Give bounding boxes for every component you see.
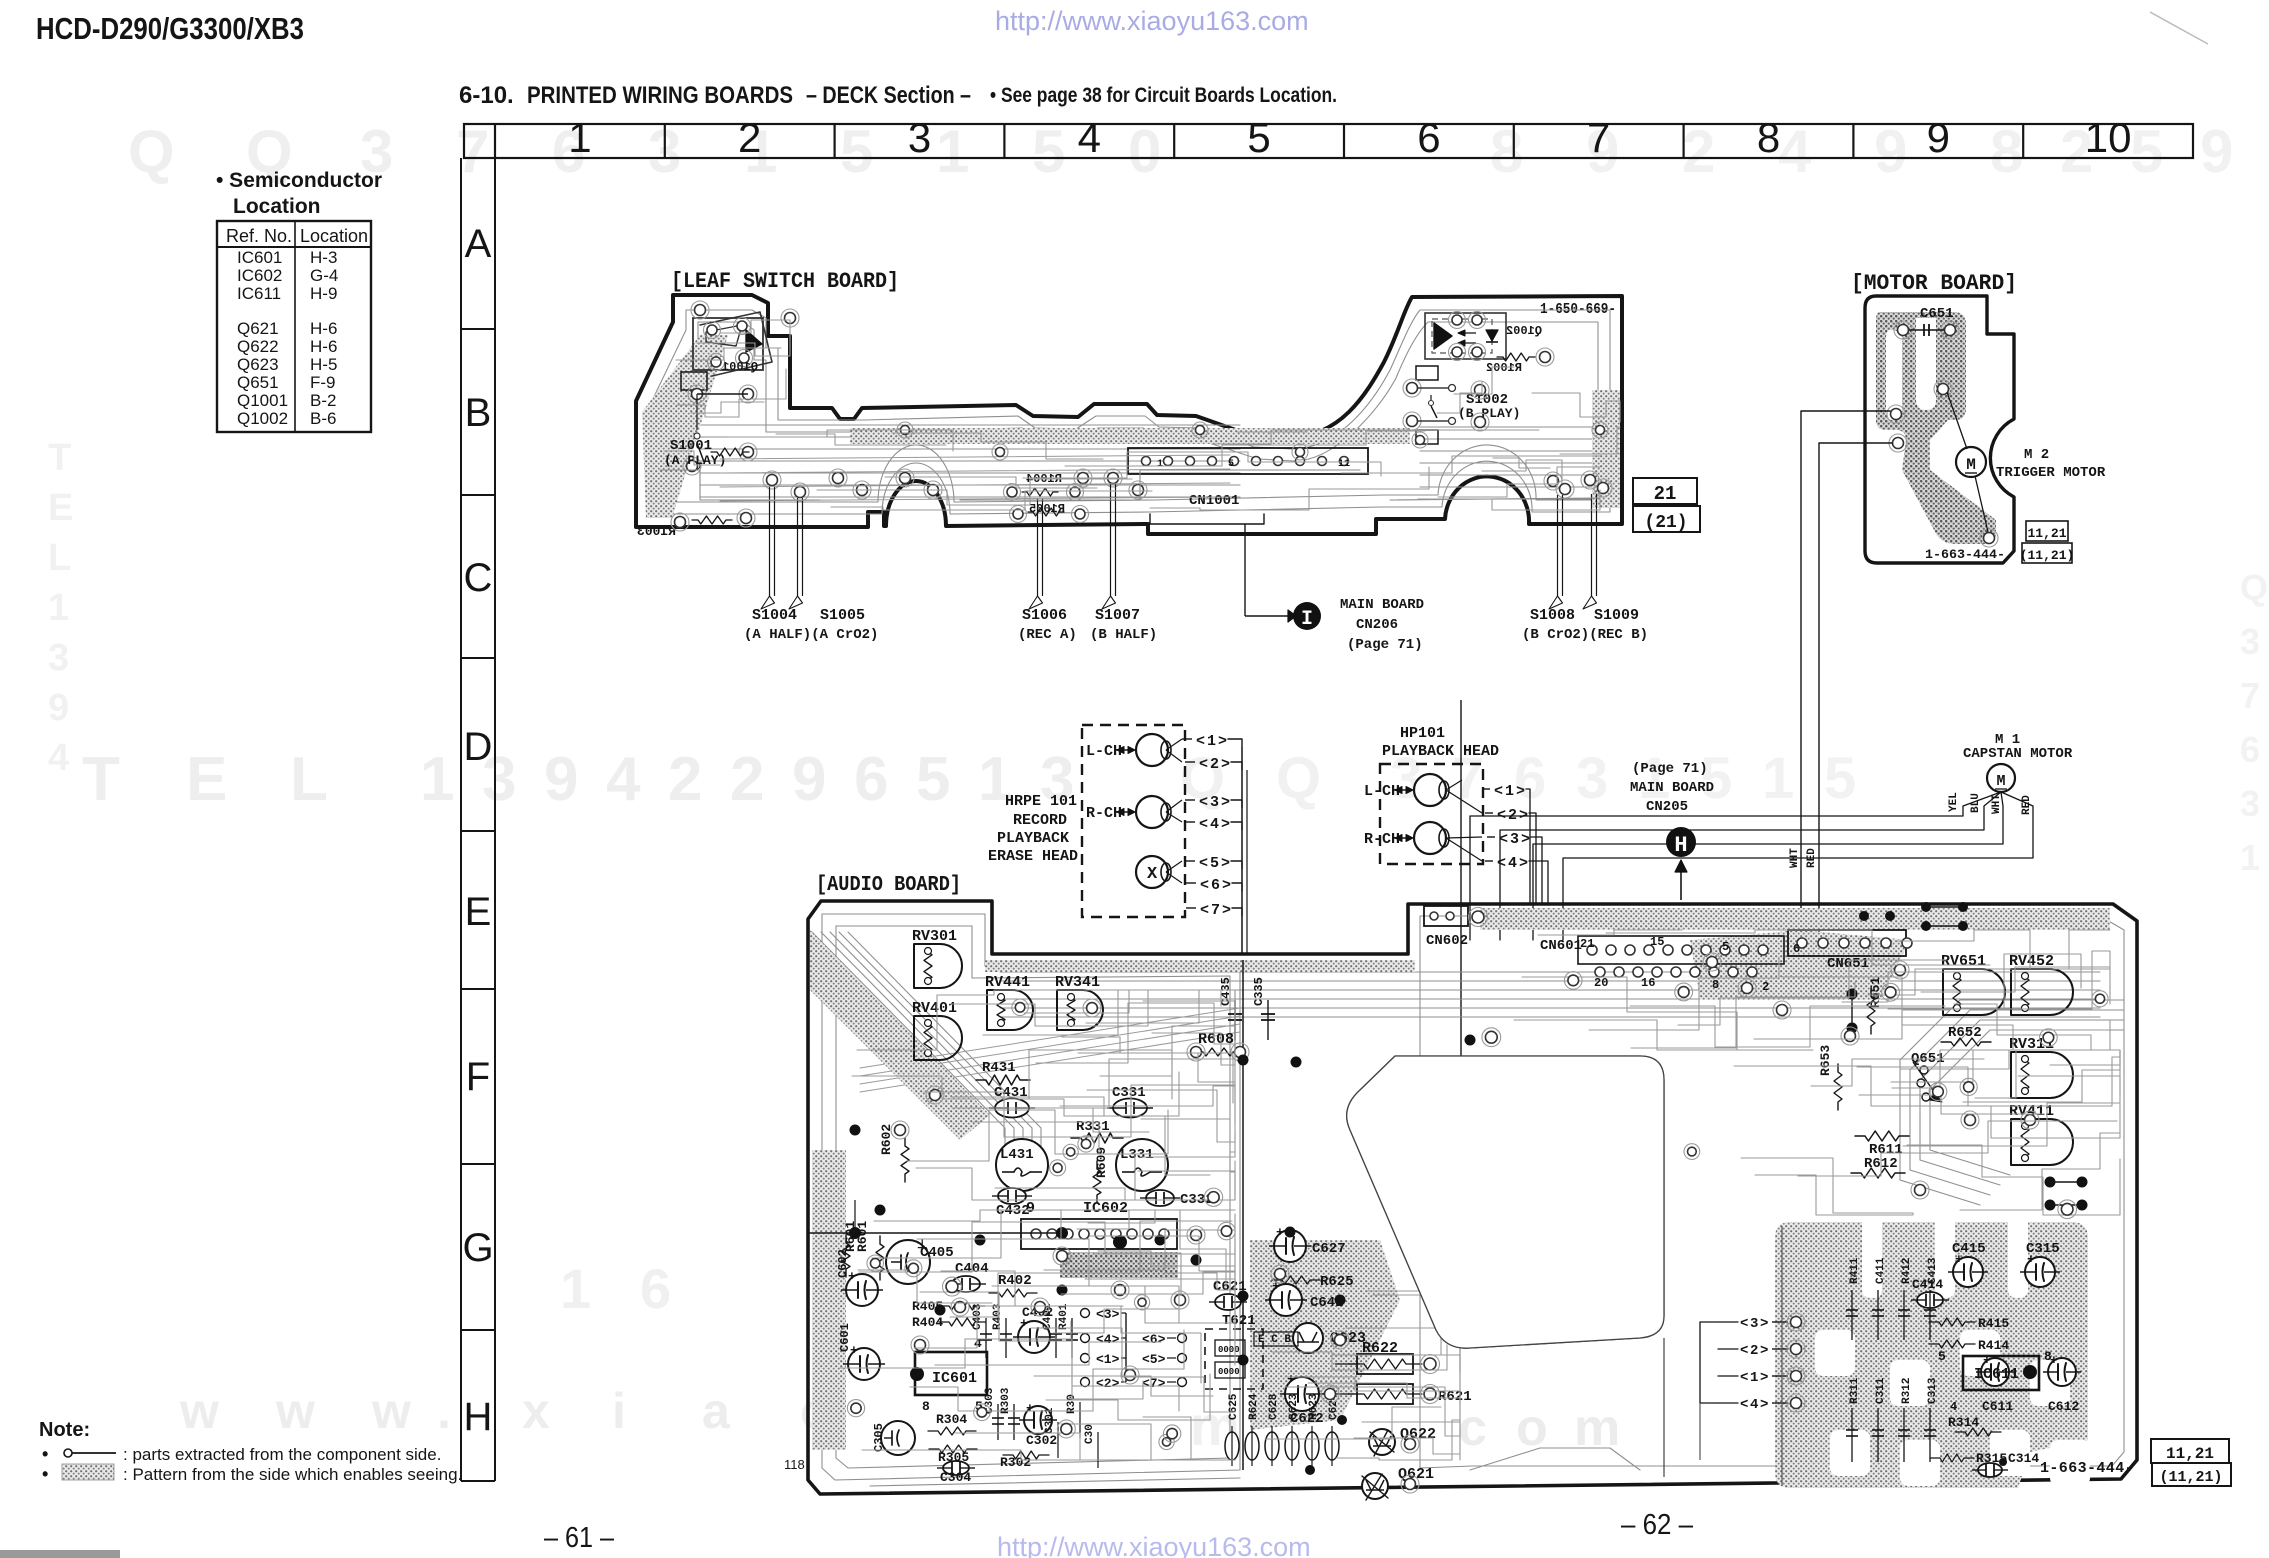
svg-text:4: 4: [1508, 855, 1517, 872]
svg-text:>: >: [1760, 1397, 1768, 1413]
svg-text:2: 2: [1508, 807, 1517, 824]
svg-text:HRPE 101: HRPE 101: [1005, 793, 1077, 810]
svg-text:R312: R312: [1901, 1378, 1913, 1404]
svg-text:IC611: IC611: [237, 284, 281, 303]
svg-text:BLU: BLU: [1970, 793, 1982, 813]
svg-text:>: >: [1516, 783, 1525, 800]
svg-text:L331: L331: [1120, 1147, 1154, 1163]
svg-text:8: 8: [922, 1399, 930, 1414]
svg-text:C302: C302: [1026, 1433, 1057, 1448]
svg-text:H-5: H-5: [310, 355, 337, 374]
svg-text:<: <: [1199, 816, 1208, 833]
svg-text:>: >: [1218, 733, 1227, 750]
svg-text:B-6: B-6: [310, 409, 336, 428]
svg-text:6: 6: [1793, 942, 1800, 956]
svg-text:R431: R431: [982, 1060, 1016, 1076]
svg-text:C612: C612: [2048, 1399, 2079, 1414]
svg-text:2: 2: [1210, 756, 1219, 773]
svg-text:S1001: S1001: [670, 438, 712, 454]
svg-text:15: 15: [1650, 935, 1664, 949]
svg-text:L-CH: L-CH: [1364, 783, 1400, 800]
svg-text:>: >: [1222, 902, 1231, 919]
svg-text:PRINTED WIRING BOARDS: PRINTED WIRING BOARDS: [527, 82, 793, 109]
svg-text:– 62 –: – 62 –: [1621, 1509, 1694, 1541]
svg-text:4: 4: [1950, 1400, 1957, 1414]
svg-text:16: 16: [1641, 976, 1655, 990]
svg-text:<5>: <5>: [1142, 1352, 1166, 1367]
svg-text:C602: C602: [836, 1249, 850, 1278]
svg-text:3: 3: [1510, 831, 1519, 848]
svg-text:RV301: RV301: [912, 928, 957, 945]
svg-text:IC601: IC601: [932, 1370, 977, 1387]
svg-text:w: w: [371, 1383, 411, 1439]
svg-text:WHT: WHT: [1991, 794, 2003, 814]
svg-text:R-CH: R-CH: [1086, 805, 1122, 822]
svg-text:R303: R303: [1000, 1387, 1012, 1414]
svg-text:5: 5: [1247, 114, 1270, 161]
svg-text:1-663-444-: 1-663-444-: [1925, 547, 2005, 562]
svg-text:R401: R401: [1058, 1303, 1070, 1330]
svg-text:C313: C313: [1927, 1377, 1939, 1404]
svg-text:– 61 –: – 61 –: [544, 1522, 615, 1554]
svg-text:4: 4: [1210, 816, 1219, 833]
svg-text:5: 5: [1722, 940, 1729, 954]
svg-text:http://www.xiaoyu163.com: http://www.xiaoyu163.com: [995, 6, 1309, 36]
svg-text:3: 3: [1576, 746, 1608, 811]
svg-text:<7>: <7>: [1142, 1376, 1166, 1391]
svg-text:L-CH: L-CH: [1086, 743, 1122, 760]
svg-text:5: 5: [1700, 746, 1732, 811]
svg-text:4: 4: [1778, 118, 1812, 185]
svg-text:H-3: H-3: [310, 248, 337, 267]
svg-text:MAIN BOARD: MAIN BOARD: [1340, 597, 1424, 613]
svg-text:(11,21): (11,21): [2020, 548, 2075, 563]
svg-text:1-663-444-: 1-663-444-: [2040, 1460, 2134, 1477]
svg-text:9: 9: [792, 745, 826, 814]
svg-text:7: 7: [2240, 675, 2260, 716]
svg-text:5: 5: [1938, 1349, 1946, 1364]
svg-text:8: 8: [2044, 1349, 2052, 1364]
svg-text:>: >: [1221, 855, 1230, 872]
svg-text:• See page 38 for Circuit Boar: • See page 38 for Circuit Boards Locatio…: [990, 84, 1337, 107]
svg-text:RED: RED: [2021, 795, 2033, 815]
svg-text:2: 2: [730, 745, 764, 814]
svg-text:C601: C601: [838, 1323, 852, 1352]
svg-text:R624: R624: [1248, 1393, 1260, 1420]
svg-text:T621: T621: [1222, 1313, 1256, 1329]
svg-text:R1003: R1003: [637, 524, 676, 539]
svg-text:<: <: [1499, 831, 1508, 848]
svg-text:5: 5: [1824, 746, 1856, 811]
svg-text:•: •: [42, 1444, 48, 1464]
svg-text:1: 1: [1157, 459, 1163, 470]
svg-text:1: 1: [48, 587, 69, 629]
svg-text:Location: Location: [233, 195, 321, 218]
svg-text:R623: R623: [1308, 1393, 1320, 1420]
svg-text:CN206: CN206: [1356, 617, 1398, 633]
svg-text:9: 9: [1874, 118, 1907, 185]
svg-text:R414: R414: [1978, 1338, 2009, 1353]
svg-text:RV441: RV441: [985, 974, 1030, 991]
svg-text:IC611: IC611: [1974, 1366, 2019, 1383]
svg-text:i: i: [612, 1383, 626, 1439]
svg-text:2: 2: [1682, 118, 1715, 185]
svg-text:>: >: [1519, 807, 1528, 824]
svg-text:(A PLAY): (A PLAY): [664, 453, 726, 468]
svg-text:+: +: [1276, 1225, 1284, 1240]
svg-text:3: 3: [48, 637, 69, 679]
svg-text:C30: C30: [1084, 1424, 1096, 1444]
svg-text:7: 7: [1587, 114, 1610, 161]
svg-text:0000: 0000: [1218, 1367, 1240, 1377]
svg-text:<6>: <6>: [1142, 1332, 1166, 1347]
svg-text:>: >: [1221, 794, 1230, 811]
svg-text:7: 7: [1211, 902, 1220, 919]
svg-text:11,21: 11,21: [2166, 1445, 2214, 1463]
svg-text:PLAYBACK HEAD: PLAYBACK HEAD: [1382, 743, 1499, 760]
svg-text:R412: R412: [1901, 1258, 1913, 1284]
svg-text:8: 8: [1712, 978, 1719, 992]
svg-text:I: I: [1301, 608, 1313, 631]
svg-text:C411: C411: [1875, 1257, 1887, 1284]
svg-text:G-4: G-4: [310, 266, 338, 285]
svg-text:<4>: <4>: [1096, 1332, 1120, 1347]
svg-text:(B CrO2)(REC B): (B CrO2)(REC B): [1522, 627, 1648, 643]
svg-text:4: 4: [1078, 114, 1101, 161]
svg-text:C335: C335: [1252, 977, 1266, 1006]
svg-text:RV341: RV341: [1055, 974, 1100, 991]
svg-text:5: 5: [840, 118, 873, 185]
svg-text:: parts extracted from the com: : parts extracted from the component sid…: [123, 1445, 441, 1464]
svg-text:(B HALF): (B HALF): [1090, 627, 1157, 643]
svg-text:R609: R609: [1094, 1147, 1109, 1178]
svg-text:>: >: [1222, 877, 1231, 894]
svg-text:21: 21: [1580, 937, 1594, 951]
svg-text:CN205: CN205: [1646, 799, 1688, 815]
svg-text:Q621: Q621: [1398, 1466, 1434, 1483]
svg-text:H-6: H-6: [310, 337, 337, 356]
svg-text:c: c: [1458, 1399, 1487, 1457]
svg-text:Q1002: Q1002: [1506, 324, 1542, 338]
svg-text:S1009: S1009: [1594, 607, 1639, 624]
svg-text:C627: C627: [1312, 1241, 1346, 1257]
svg-text:L: L: [290, 745, 328, 814]
svg-text:9: 9: [2200, 118, 2233, 185]
svg-text:IC601: IC601: [237, 248, 282, 267]
svg-text:Note:: Note:: [39, 1419, 90, 1441]
svg-text:R314: R314: [1948, 1415, 1979, 1430]
svg-text:C623: C623: [1288, 1393, 1300, 1420]
svg-text:•: •: [42, 1464, 48, 1484]
svg-text:8: 8: [1490, 118, 1523, 185]
svg-text:PLAYBACK: PLAYBACK: [997, 830, 1069, 847]
svg-text:CN602: CN602: [1426, 933, 1468, 949]
svg-text:<: <: [1200, 877, 1209, 894]
svg-text:>: >: [1221, 756, 1230, 773]
svg-text:MAIN BOARD: MAIN BOARD: [1630, 780, 1714, 796]
svg-text:R625: R625: [1320, 1274, 1354, 1290]
svg-text:B-2: B-2: [310, 391, 336, 410]
svg-text:<: <: [1740, 1397, 1748, 1413]
svg-text:5: 5: [2130, 118, 2163, 185]
svg-text:A: A: [465, 222, 492, 266]
svg-text:C314: C314: [2008, 1451, 2039, 1466]
svg-text:HP101: HP101: [1400, 725, 1445, 742]
svg-text:4: 4: [606, 745, 641, 814]
svg-text:0000: 0000: [1218, 1345, 1240, 1355]
svg-text:C: C: [464, 556, 493, 600]
svg-text:(11,21): (11,21): [2159, 1469, 2222, 1486]
svg-text:C305: C305: [872, 1423, 886, 1452]
svg-text:CN1001: CN1001: [1189, 493, 1239, 509]
svg-text:4: 4: [974, 1336, 982, 1351]
svg-text:3: 3: [1750, 1316, 1758, 1332]
svg-text:Q: Q: [128, 118, 175, 185]
svg-text:M: M: [1996, 773, 2005, 790]
svg-text:H-6: H-6: [310, 319, 337, 338]
svg-text:S1008: S1008: [1530, 607, 1575, 624]
svg-text:TRIGGER MOTOR: TRIGGER MOTOR: [1996, 465, 2106, 481]
svg-text:E: E: [48, 487, 73, 529]
svg-text:1: 1: [1750, 1370, 1758, 1386]
svg-text:6: 6: [2240, 729, 2260, 770]
svg-text:R411: R411: [1849, 1257, 1861, 1284]
svg-text:6: 6: [1417, 114, 1440, 161]
svg-text:Q1001: Q1001: [722, 360, 758, 374]
svg-text:x: x: [522, 1383, 550, 1439]
svg-text:CN601: CN601: [1540, 938, 1582, 954]
svg-text:S1004: S1004: [752, 607, 797, 624]
svg-text:E: E: [186, 745, 227, 814]
svg-text:9: 9: [544, 745, 578, 814]
svg-text:G: G: [462, 1226, 493, 1270]
svg-text:20: 20: [1594, 976, 1608, 990]
svg-text:Q623: Q623: [237, 355, 279, 374]
svg-text:Q622: Q622: [237, 337, 279, 356]
svg-text:1: 1: [1505, 783, 1514, 800]
svg-text:R651: R651: [1868, 977, 1883, 1008]
svg-text:YEL: YEL: [1948, 792, 1960, 812]
svg-text:H-9: H-9: [310, 284, 337, 303]
svg-text:<2>: <2>: [1096, 1376, 1120, 1391]
svg-text:a: a: [702, 1383, 731, 1439]
svg-text:Q621: Q621: [237, 319, 279, 338]
svg-text:4: 4: [48, 737, 69, 779]
svg-text:<: <: [1494, 783, 1503, 800]
svg-text:2: 2: [668, 745, 702, 814]
svg-text:5: 5: [916, 745, 950, 814]
svg-text:[AUDIO BOARD]: [AUDIO BOARD]: [816, 874, 961, 897]
svg-text:6: 6: [854, 745, 888, 814]
svg-text:<: <: [1200, 902, 1209, 919]
svg-text:w: w: [179, 1383, 219, 1439]
svg-text:3: 3: [2240, 783, 2260, 824]
svg-text:C415: C415: [1952, 1241, 1986, 1257]
svg-text:>: >: [1221, 816, 1230, 833]
svg-text:R602: R602: [879, 1124, 894, 1155]
svg-text:C315: C315: [2026, 1241, 2060, 1257]
svg-text:.: .: [437, 1383, 451, 1439]
svg-text:(21): (21): [1644, 513, 1687, 533]
svg-text:C311: C311: [1875, 1377, 1887, 1404]
svg-text:(Page 71): (Page 71): [1347, 637, 1423, 653]
svg-text:>: >: [1760, 1370, 1768, 1386]
svg-text:1: 1: [1762, 746, 1794, 811]
svg-text:D: D: [464, 725, 493, 769]
svg-text:5: 5: [1210, 855, 1219, 872]
svg-text:3: 3: [2240, 621, 2260, 662]
svg-text:(Page 71): (Page 71): [1632, 761, 1708, 777]
svg-text:w: w: [275, 1383, 315, 1439]
svg-text:Q1001: Q1001: [237, 391, 288, 410]
svg-text:2: 2: [738, 114, 761, 161]
svg-text:C625: C625: [1228, 1393, 1240, 1420]
svg-text:ERASE HEAD: ERASE HEAD: [988, 848, 1078, 865]
svg-text:2: 2: [1762, 980, 1769, 994]
svg-text:1: 1: [420, 745, 454, 814]
svg-text:E C B: E C B: [1258, 1334, 1291, 1346]
svg-text:T: T: [82, 745, 120, 814]
svg-text:: Pattern from the side which: : Pattern from the side which enables se…: [123, 1465, 462, 1484]
svg-text:S1007: S1007: [1095, 607, 1140, 624]
svg-text:RV401: RV401: [912, 1000, 957, 1017]
svg-text:2: 2: [1750, 1343, 1758, 1359]
svg-text:• Semiconductor: • Semiconductor: [216, 169, 382, 192]
svg-text:R653: R653: [1818, 1045, 1833, 1076]
svg-text:B: B: [465, 391, 492, 435]
svg-text:CN651: CN651: [1827, 956, 1869, 972]
svg-text:21: 21: [1654, 483, 1677, 505]
svg-text:[LEAF SWITCH BOARD]: [LEAF SWITCH BOARD]: [671, 269, 899, 294]
svg-text:R1002: R1002: [1486, 361, 1522, 375]
svg-text:C331: C331: [1112, 1085, 1146, 1101]
svg-text:CAPSTAN MOTOR: CAPSTAN MOTOR: [1963, 746, 2073, 762]
svg-text:IC602: IC602: [237, 266, 282, 285]
svg-text:T: T: [48, 437, 71, 479]
svg-text:6-10.: 6-10.: [459, 82, 514, 109]
svg-text:S1006: S1006: [1022, 607, 1067, 624]
svg-text:4: 4: [1750, 1397, 1758, 1413]
svg-text:S1005: S1005: [820, 607, 865, 624]
svg-text:11: 11: [1338, 459, 1350, 470]
svg-text:Q1002: Q1002: [237, 409, 288, 428]
svg-text:5: 5: [1032, 118, 1065, 185]
svg-text:8: 8: [1990, 118, 2023, 185]
svg-text:Q: Q: [1276, 746, 1321, 811]
svg-text:X: X: [1147, 865, 1158, 884]
svg-text:<: <: [1740, 1316, 1748, 1332]
svg-text:3: 3: [1210, 794, 1219, 811]
svg-text:M: M: [1966, 456, 1976, 474]
svg-text:1: 1: [936, 118, 969, 185]
svg-text:F: F: [466, 1055, 490, 1099]
svg-text:RECORD: RECORD: [1013, 812, 1067, 829]
svg-text:IC602: IC602: [1083, 1200, 1128, 1217]
svg-text:[MOTOR BOARD]: [MOTOR BOARD]: [1851, 271, 2017, 296]
svg-text:M 2: M 2: [2024, 447, 2049, 463]
svg-text:>: >: [1521, 831, 1530, 848]
svg-text:>: >: [1760, 1343, 1768, 1359]
svg-text:L431: L431: [1000, 1147, 1034, 1163]
svg-text:RV651: RV651: [1941, 953, 1986, 970]
svg-text:Location: Location: [300, 226, 368, 246]
svg-text:Q651: Q651: [237, 373, 279, 392]
svg-text:+: +: [1272, 1279, 1280, 1294]
svg-text:(B PLAY): (B PLAY): [1458, 406, 1520, 421]
svg-text:C628: C628: [1268, 1393, 1280, 1420]
svg-text:R404: R404: [912, 1315, 943, 1330]
svg-text:R311: R311: [1849, 1377, 1861, 1404]
svg-text:5: 5: [1228, 459, 1234, 470]
svg-text:<1>: <1>: [1096, 1352, 1120, 1367]
svg-text:>: >: [1519, 855, 1528, 872]
svg-text:6: 6: [640, 1257, 671, 1320]
svg-text:<: <: [1740, 1343, 1748, 1359]
svg-text:9: 9: [48, 687, 69, 729]
svg-text:⊥: ⊥: [917, 1238, 927, 1252]
svg-text:(A HALF)(A CrO2): (A HALF)(A CrO2): [744, 627, 878, 643]
svg-text:C611: C611: [1982, 1399, 2013, 1414]
svg-text:6: 6: [1211, 877, 1220, 894]
svg-text:10: 10: [2085, 114, 2132, 161]
svg-text:<: <: [1199, 794, 1208, 811]
svg-text:<: <: [1196, 733, 1205, 750]
svg-text:0: 0: [1128, 118, 1161, 185]
svg-text:R304: R304: [936, 1412, 967, 1427]
svg-text:<: <: [1199, 855, 1208, 872]
svg-text:HCD-D290/G3300/XB3: HCD-D290/G3300/XB3: [36, 11, 304, 46]
svg-text:R302: R302: [1000, 1455, 1031, 1470]
svg-text:R601: R601: [843, 1221, 858, 1252]
svg-text:C651: C651: [1920, 306, 1954, 322]
svg-text:C413: C413: [1927, 1257, 1939, 1284]
svg-text:– DECK Section –: – DECK Section –: [806, 82, 971, 109]
svg-text:+: +: [1026, 1401, 1034, 1416]
svg-text:118: 118: [784, 1457, 805, 1472]
svg-text:R415: R415: [1978, 1316, 2009, 1331]
svg-text:R652: R652: [1948, 1025, 1982, 1041]
svg-text:Q: Q: [2240, 567, 2268, 608]
svg-text:+: +: [1287, 1372, 1295, 1387]
svg-text:F-9: F-9: [310, 373, 336, 392]
svg-text:1: 1: [568, 114, 591, 161]
svg-text:Ref. No.: Ref. No.: [226, 226, 292, 246]
svg-text:(REC A): (REC A): [1018, 627, 1077, 643]
svg-text:H: H: [1674, 833, 1687, 858]
svg-text:9: 9: [1026, 1200, 1035, 1217]
svg-text:L: L: [48, 537, 71, 579]
svg-text:C304: C304: [940, 1470, 971, 1485]
svg-text:9: 9: [1927, 114, 1950, 161]
svg-text:E: E: [465, 890, 492, 934]
svg-text:>: >: [1760, 1316, 1768, 1332]
svg-text:<: <: [1497, 855, 1506, 872]
svg-text:3: 3: [908, 114, 931, 161]
svg-text:1: 1: [1207, 733, 1216, 750]
svg-text:1: 1: [2240, 837, 2260, 878]
svg-text:8: 8: [1757, 114, 1780, 161]
svg-text:11,21: 11,21: [2027, 526, 2066, 541]
svg-text:<: <: [1497, 807, 1506, 824]
svg-text:<: <: [1740, 1370, 1748, 1386]
svg-text:http://www.xiaoyu163.com: http://www.xiaoyu163.com: [997, 1532, 1311, 1558]
svg-text:H: H: [464, 1395, 493, 1439]
svg-text:R-CH: R-CH: [1364, 831, 1400, 848]
svg-text:1: 1: [560, 1257, 591, 1320]
svg-text:<: <: [1199, 756, 1208, 773]
